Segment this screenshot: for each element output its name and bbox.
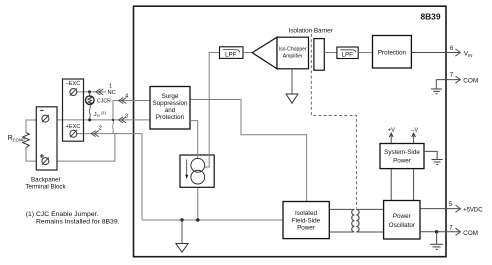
svg-text:COM: COM xyxy=(463,230,478,237)
system-side power box xyxy=(380,144,424,169)
terminal screw minus xyxy=(42,115,49,122)
wire surge to current source xyxy=(190,121,198,158)
iso-chopper amplifier xyxy=(252,37,277,69)
wire transformer to power oscillator top xyxy=(356,208,383,210)
wire pin7 top COM xyxy=(436,79,460,81)
wire LPF1 to chopper xyxy=(243,52,252,54)
svg-text:Suppression: Suppression xyxy=(152,100,188,107)
excitation terminal block xyxy=(63,79,84,141)
wire rcomp top xyxy=(26,120,36,133)
svg-text:Protection: Protection xyxy=(156,114,185,121)
jumper pin3 to pin2 squiggle xyxy=(112,120,115,134)
wire barrier to LPF2 xyxy=(324,52,337,54)
svg-text:(1) CJC Enable Jumper.: (1) CJC Enable Jumper. xyxy=(26,211,99,218)
barrier element xyxy=(314,39,324,71)
svg-text:Amplifier: Amplifier xyxy=(283,53,303,59)
chopper ground stub xyxy=(291,69,293,94)
svg-text:1: 1 xyxy=(109,84,112,90)
svg-text:COM: COM xyxy=(463,78,478,85)
junction dot jumper pin3 xyxy=(88,118,91,121)
wire surge output to isolated field-side power xyxy=(190,100,307,202)
-V lead arrow xyxy=(413,134,415,144)
chopper ground triangle xyxy=(286,94,298,103)
svg-text:and: and xyxy=(165,107,176,114)
wire LPF1 feed from current source xyxy=(204,53,219,168)
junction dot pin4 riser on pin3 wire xyxy=(112,119,115,122)
svg-text:Terminal Block: Terminal Block xyxy=(25,184,66,191)
wire pin2 xyxy=(77,134,142,220)
svg-text:3: 3 xyxy=(125,114,128,120)
jumper JH squiggle CJC to pin3 xyxy=(89,105,90,120)
field ground stub xyxy=(181,220,183,244)
svg-text:Remains Installed for 8B39.: Remains Installed for 8B39. xyxy=(36,219,120,226)
minus sign xyxy=(40,109,44,111)
svg-text:+5VDC: +5VDC xyxy=(463,207,483,213)
surge suppression box xyxy=(150,87,190,130)
pin 3 arrow xyxy=(119,117,127,123)
svg-text:Iso-Chopper: Iso-Chopper xyxy=(279,47,307,53)
svg-text:Field-Side: Field-Side xyxy=(292,217,321,224)
wire pin4 xyxy=(113,101,150,120)
junction dot com ground xyxy=(435,230,438,233)
transformer left winding xyxy=(352,209,355,232)
svg-text:+V: +V xyxy=(388,128,395,134)
svg-text:–V: –V xyxy=(411,128,418,134)
field ground triangle xyxy=(176,244,188,253)
wire pin1 NC from -EXC xyxy=(77,91,106,93)
LPF1 box xyxy=(220,47,244,59)
svg-text:+EXC: +EXC xyxy=(66,124,81,130)
svg-text:Isolation Barrier: Isolation Barrier xyxy=(289,28,333,35)
backpanel terminal block xyxy=(36,107,57,170)
ground system-side xyxy=(424,151,437,159)
current source arrow xyxy=(186,160,188,176)
svg-text:–EXC: –EXC xyxy=(66,81,81,87)
resistor RCOMP xyxy=(23,133,30,148)
wires system-side to power oscillator xyxy=(390,169,392,201)
junction dot current source tap xyxy=(196,218,199,221)
wire plus terminal riser to pin2 wire xyxy=(49,134,115,162)
LPF2 box xyxy=(337,47,358,59)
svg-text:LPF: LPF xyxy=(342,52,354,59)
wire pin5 +5VDC xyxy=(420,208,460,210)
svg-text:Power: Power xyxy=(393,213,411,220)
current source circles xyxy=(191,158,205,172)
wire current source to bottom bus xyxy=(197,184,199,220)
pin7 arrow xyxy=(455,76,460,83)
svg-text:LPF: LPF xyxy=(225,51,237,58)
ground com bottom xyxy=(436,232,438,244)
svg-text:Oscillator: Oscillator xyxy=(389,222,415,229)
terminal screw +EXC xyxy=(70,130,77,137)
wire pin7 bottom COM xyxy=(420,231,460,233)
wire pin6 Vin xyxy=(411,52,459,54)
bottom bus wire xyxy=(142,219,283,221)
pin7 bottom arrow xyxy=(456,228,461,235)
pin5 arrow xyxy=(456,205,461,212)
svg-text:System-Side: System-Side xyxy=(384,149,420,156)
svg-text:Isolated: Isolated xyxy=(295,210,318,217)
ground pin7 top xyxy=(435,80,437,89)
svg-text:Surge: Surge xyxy=(162,93,179,100)
terminal screw -EXC xyxy=(70,89,77,96)
wire minus terminal to pin 3 / surge xyxy=(49,119,150,121)
plus sign xyxy=(40,154,44,158)
svg-text:Power: Power xyxy=(393,158,411,165)
pin 2 arrow xyxy=(91,131,99,137)
svg-text:8B39: 8B39 xyxy=(420,12,440,22)
svg-text:NC: NC xyxy=(108,90,116,96)
terminal screw plus xyxy=(42,158,49,165)
pin 4 arrow xyxy=(119,98,127,104)
transformer right winding xyxy=(356,209,359,232)
svg-text:2: 2 xyxy=(99,126,102,132)
wire isolated power to transformer bottom xyxy=(329,231,354,233)
svg-text:CJCR: CJCR xyxy=(97,99,111,105)
wire transformer to power oscillator bottom xyxy=(356,231,383,233)
pin6 arrow xyxy=(455,49,460,56)
pin 1 arrow xyxy=(96,89,104,95)
wire LPF2 to protection xyxy=(358,52,372,54)
dashed isolation path xyxy=(311,34,356,209)
wire isolated power to transformer top xyxy=(329,208,354,210)
junction dot ground tap xyxy=(180,218,183,221)
CJC sensor xyxy=(89,92,91,96)
svg-text:4: 4 xyxy=(125,93,128,99)
junction dot CJC top xyxy=(88,90,91,93)
svg-text:Backpanel: Backpanel xyxy=(31,177,60,184)
wire rcomp bottom xyxy=(26,148,36,162)
+V lead arrow xyxy=(390,134,392,144)
svg-text:Power: Power xyxy=(297,225,315,232)
isolated field-side power box xyxy=(283,202,329,239)
module outline 8B39 xyxy=(134,6,447,257)
protection box xyxy=(373,36,412,69)
svg-text:Protection: Protection xyxy=(378,49,407,56)
current source box xyxy=(180,155,214,187)
power oscillator box xyxy=(384,201,420,240)
